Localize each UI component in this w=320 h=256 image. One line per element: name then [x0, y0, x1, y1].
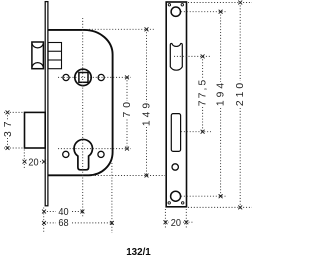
- latch center extension: [174, 55, 211, 57]
- dim line 149: [146, 29, 148, 175]
- screw center extension: [181, 11, 227, 13]
- svg-text:210: 210: [235, 83, 246, 106]
- case hole top-right: [98, 74, 104, 80]
- latch cutout front view: [170, 43, 182, 70]
- arrow 210 down: [239, 206, 242, 209]
- arrow 68 left: [42, 221, 45, 224]
- arrow 77.5 up: [201, 55, 204, 58]
- dim line 20 right: [166, 221, 194, 223]
- case hole top-left: [63, 74, 69, 80]
- euro cylinder hole: [74, 139, 92, 169]
- svg-text:194: 194: [216, 83, 227, 106]
- arrow 37 down: [6, 146, 9, 149]
- deadbolt center extension: [181, 131, 211, 133]
- ext 20 left: [23, 150, 25, 170]
- deadbolt edge view: [25, 112, 46, 148]
- svg-text:149: 149: [142, 103, 153, 126]
- svg-text:132/1: 132/1: [126, 247, 151, 256]
- plate bottom extension: [188, 206, 252, 208]
- latch bolt edge view: [32, 42, 44, 69]
- deadbolt cutout front view: [171, 114, 180, 152]
- ext 37 top: [4, 111, 24, 113]
- svg-text:77,5: 77,5: [198, 79, 209, 106]
- svg-text:20: 20: [171, 218, 181, 229]
- bottom screw extension: [181, 195, 226, 197]
- front plate screw hole top: [171, 7, 180, 16]
- spring box line 1: [48, 50, 61, 52]
- arrow 40 right: [81, 210, 84, 213]
- case hole bottom-right: [98, 151, 104, 157]
- corner dot bottom-right: [182, 202, 184, 204]
- case hole bottom-left: [63, 151, 69, 157]
- arrow 70 down: [125, 147, 128, 150]
- arrow 70 up: [125, 76, 128, 79]
- ext faceplate bottom: [43, 208, 45, 234]
- latch face bottom arc: [32, 63, 44, 68]
- arrow 20L left: [23, 160, 26, 163]
- dim line 20 left: [25, 161, 45, 163]
- dim line 70: [126, 77, 128, 148]
- arrow 20R right: [185, 221, 188, 224]
- arrow 210 up: [239, 1, 242, 4]
- ext case right bottom: [111, 163, 113, 233]
- front plate screw hole bottom: [171, 191, 181, 201]
- svg-text:20: 20: [28, 158, 38, 169]
- spring box line 2: [48, 59, 61, 61]
- arrow 68 right: [110, 221, 113, 224]
- dim line 194: [220, 12, 222, 197]
- corner dot top-right: [181, 4, 183, 6]
- centerline vertical: [82, 18, 84, 218]
- plate top extension: [188, 2, 252, 4]
- lock case body: [48, 30, 113, 175]
- corner dot top-left: [168, 4, 170, 6]
- case bottom extension: [92, 175, 165, 177]
- latch spring box: [48, 43, 61, 69]
- dim line 37: [7, 112, 9, 148]
- ext 37 bottom: [4, 147, 24, 149]
- arrow 77.5 down: [201, 130, 204, 133]
- follower centerline horizontal: [58, 76, 131, 78]
- front faceplate outline: [166, 2, 186, 207]
- arrow 20R left: [164, 221, 167, 224]
- arrow 149 down: [145, 174, 148, 177]
- svg-text:68: 68: [58, 218, 68, 229]
- follower circle: [75, 69, 91, 85]
- follower square: [79, 73, 88, 83]
- dim line 210: [239, 3, 241, 208]
- arrow 40 left: [42, 210, 45, 213]
- dim line 77.5: [202, 56, 204, 131]
- arrow 194 down: [219, 195, 222, 198]
- arrow 149 up: [145, 28, 148, 31]
- faceplate edge view: [45, 2, 48, 206]
- dim line 40: [44, 211, 82, 213]
- ext plate bottom right: [185, 209, 187, 229]
- arrow 37 up: [6, 111, 9, 114]
- svg-text:40: 40: [58, 207, 68, 218]
- arrow 20L right: [42, 160, 45, 163]
- dim line 68: [44, 222, 112, 224]
- latch face top arc: [32, 43, 44, 48]
- cylinder centerline horizontal: [58, 148, 131, 150]
- front plate small hole: [172, 164, 178, 170]
- case top extension: [89, 28, 155, 30]
- corner dot bottom-left: [168, 202, 170, 204]
- arrow 194 up: [219, 10, 222, 13]
- ext plate bottom left: [164, 209, 166, 229]
